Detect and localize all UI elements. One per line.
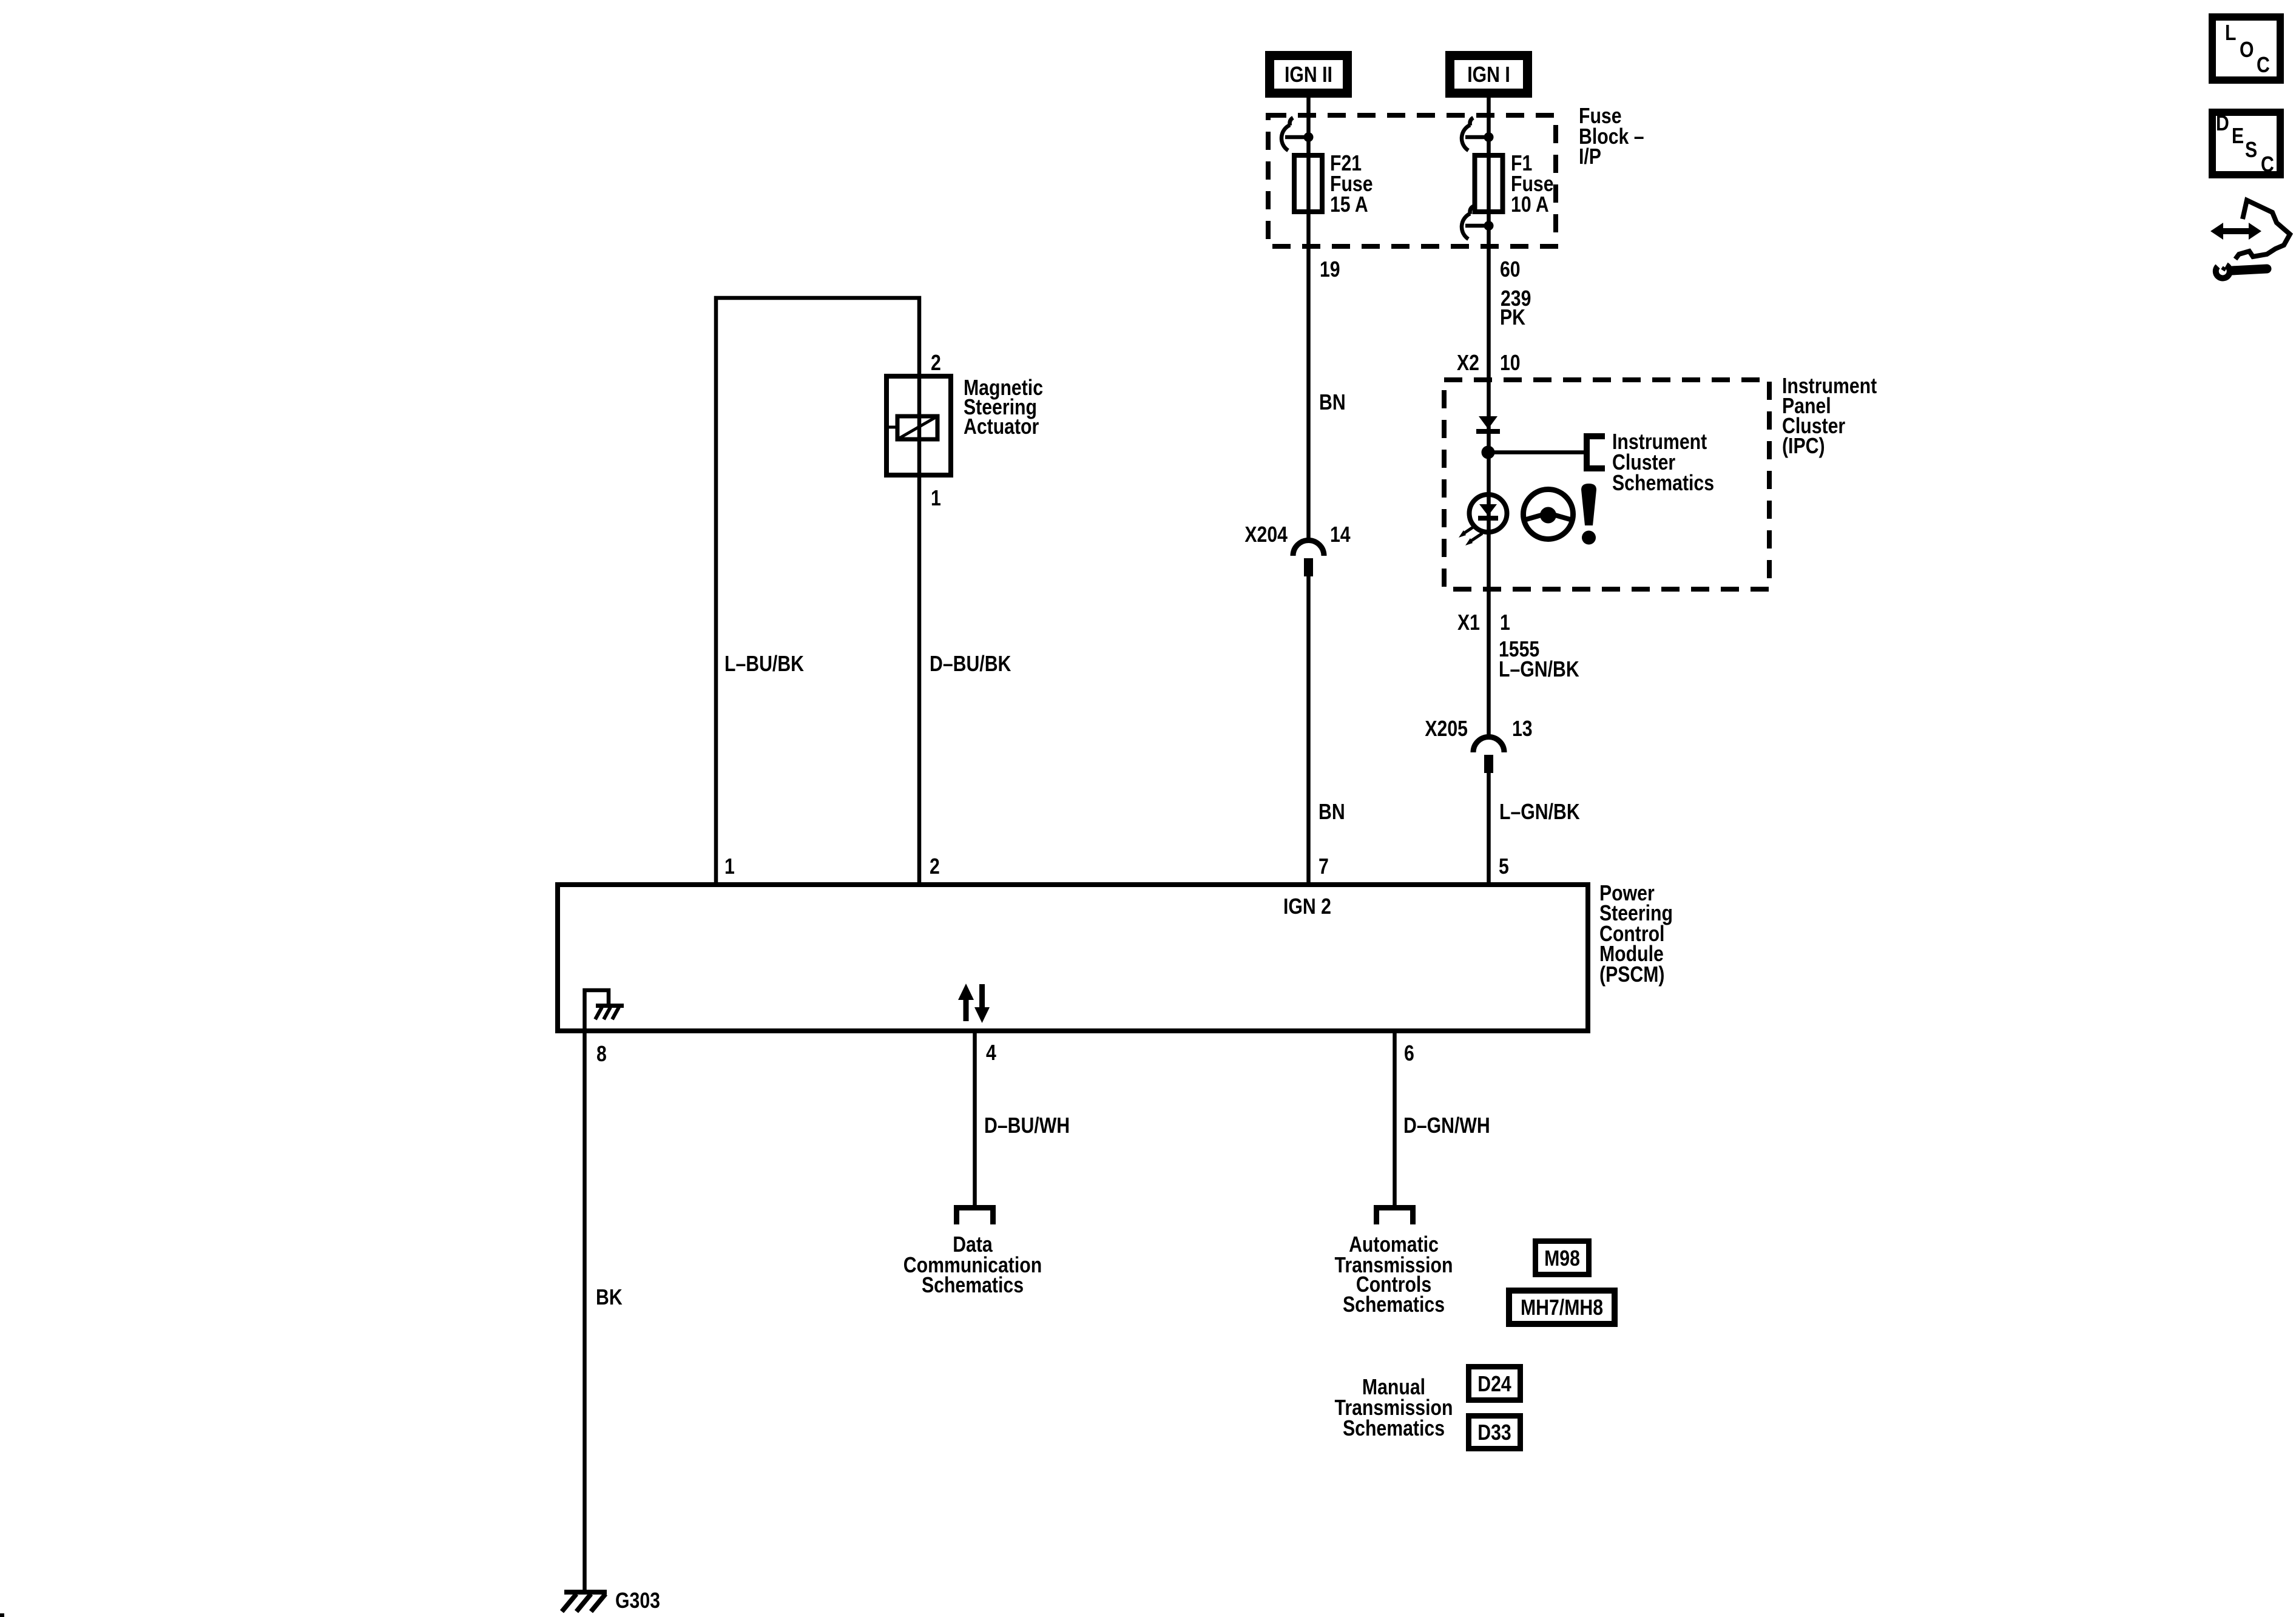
svg-text:2: 2 xyxy=(930,855,940,879)
svg-text:60: 60 xyxy=(1500,258,1521,282)
svg-text:Schematics: Schematics xyxy=(1343,1417,1445,1441)
svg-text:E: E xyxy=(2232,124,2244,149)
svg-text:MH7/MH8: MH7/MH8 xyxy=(1521,1296,1603,1320)
svg-text:IGN 2: IGN 2 xyxy=(1283,895,1331,919)
fuse block I/P dashed outline xyxy=(1268,115,1556,246)
DESC index box xyxy=(2212,112,2280,175)
svg-text:5: 5 xyxy=(1499,855,1509,879)
wire IGN II branch upper (BN feed) xyxy=(1306,98,1311,540)
actuator coil element xyxy=(886,416,937,439)
svg-text:Schematics: Schematics xyxy=(1343,1293,1445,1317)
svg-text:C: C xyxy=(2257,53,2270,78)
fuse block terminal hook below F1 xyxy=(1462,206,1494,239)
svg-text:L–GN/BK: L–GN/BK xyxy=(1499,658,1579,682)
svg-text:G303: G303 xyxy=(615,1589,660,1613)
svg-text:6: 6 xyxy=(1404,1042,1414,1066)
svg-text:BK: BK xyxy=(596,1286,623,1310)
ground G303 xyxy=(562,1592,607,1612)
off-page fork to automatic transmission controls schematics xyxy=(1377,1208,1413,1225)
inline connector X204 pin 14 xyxy=(1293,541,1324,577)
svg-text:(PSCM): (PSCM) xyxy=(1599,963,1664,987)
svg-text:X2: X2 xyxy=(1457,351,1479,376)
svg-text:1: 1 xyxy=(1500,611,1510,635)
reference box D33 xyxy=(1469,1416,1521,1449)
svg-text:D: D xyxy=(2216,112,2229,136)
power feed tag IGN I xyxy=(1450,56,1528,93)
wire IGN I branch lower to PSCM pin 5 xyxy=(1487,773,1491,885)
svg-text:8: 8 xyxy=(596,1042,607,1067)
fuse F1 xyxy=(1475,155,1503,212)
svg-text:Actuator: Actuator xyxy=(964,415,1039,439)
LOC index box xyxy=(2212,17,2280,80)
wire PSCM pin 4 serial data xyxy=(973,1031,977,1206)
svg-text:X205: X205 xyxy=(1425,717,1468,741)
svg-text:D–BU/BK: D–BU/BK xyxy=(930,652,1011,677)
page artifact dot bottom-left xyxy=(0,1613,4,1617)
fuse block terminal hook above F1 xyxy=(1462,118,1494,150)
fuse F21 xyxy=(1294,155,1322,212)
svg-text:7: 7 xyxy=(1319,855,1329,879)
svg-text:I/P: I/P xyxy=(1579,145,1601,169)
inline connector X205 pin 13 xyxy=(1473,737,1504,774)
bidirectional data arrows in PSCM xyxy=(958,984,990,1023)
svg-text:X1: X1 xyxy=(1457,611,1480,635)
svg-text:D–GN/WH: D–GN/WH xyxy=(1403,1114,1490,1138)
steering wheel warning icon xyxy=(1524,490,1573,539)
diagnostic arrow-wrench icon xyxy=(2210,200,2290,278)
wire IGN I branch upper (PK feed) xyxy=(1487,98,1491,737)
reference box D24 xyxy=(1469,1367,1521,1400)
junction node in IPC xyxy=(1482,446,1495,459)
internal ground symbol in PSCM xyxy=(585,990,624,1028)
wire PSCM pin 8 to G303 xyxy=(582,1031,587,1590)
reference box MH7/MH8 xyxy=(1509,1291,1615,1324)
svg-text:O: O xyxy=(2240,38,2254,62)
power feed tag IGN II xyxy=(1270,56,1348,93)
svg-text:S: S xyxy=(2245,138,2257,163)
diode CR1 in IPC xyxy=(1476,416,1500,431)
off-page fork to data communication schematics xyxy=(957,1208,993,1225)
svg-text:M98: M98 xyxy=(1544,1247,1580,1271)
instrument panel cluster dashed outline xyxy=(1444,380,1769,589)
wire loop PSCM pin 1 to actuator pin 2 xyxy=(716,298,919,885)
svg-text:PK: PK xyxy=(1500,306,1525,330)
svg-text:15 A: 15 A xyxy=(1330,193,1368,217)
power steering control module PSCM box xyxy=(558,885,1588,1031)
svg-text:(IPC): (IPC) xyxy=(1782,434,1825,459)
svg-text:L: L xyxy=(2225,21,2236,46)
svg-text:1: 1 xyxy=(931,487,941,511)
reference box M98 xyxy=(1536,1241,1589,1275)
svg-text:L–GN/BK: L–GN/BK xyxy=(1499,800,1580,825)
wire IGN II branch lower to PSCM pin 7 xyxy=(1306,576,1311,885)
telltale LED indicator xyxy=(1459,495,1507,545)
fuse block terminal hook above F21 xyxy=(1281,118,1314,150)
svg-text:D24: D24 xyxy=(1477,1372,1511,1397)
svg-text:IGN II: IGN II xyxy=(1285,63,1332,87)
svg-text:D33: D33 xyxy=(1477,1421,1511,1445)
svg-text:13: 13 xyxy=(1512,717,1533,741)
svg-text:10 A: 10 A xyxy=(1511,193,1549,217)
svg-text:19: 19 xyxy=(1320,258,1340,282)
svg-text:Schematics: Schematics xyxy=(1612,471,1714,496)
svg-text:Schematics: Schematics xyxy=(922,1274,1024,1298)
exclamation warning icon xyxy=(1581,484,1596,545)
svg-text:L–BU/BK: L–BU/BK xyxy=(724,652,804,677)
wire PSCM pin 6 transmission signal xyxy=(1393,1031,1397,1206)
svg-text:BN: BN xyxy=(1319,391,1346,415)
svg-text:C: C xyxy=(2261,153,2274,177)
svg-text:X204: X204 xyxy=(1244,523,1288,547)
svg-text:14: 14 xyxy=(1330,523,1351,547)
svg-text:10: 10 xyxy=(1500,351,1521,376)
wire branch to instrument cluster schematics xyxy=(1488,450,1585,454)
svg-text:2: 2 xyxy=(931,351,941,376)
svg-text:BN: BN xyxy=(1319,800,1345,825)
off-page bracket to instrument cluster schematics xyxy=(1587,436,1605,468)
svg-text:1: 1 xyxy=(724,855,735,879)
magnetic steering actuator box xyxy=(886,376,951,475)
svg-text:IGN I: IGN I xyxy=(1467,63,1510,87)
svg-text:4: 4 xyxy=(986,1041,996,1065)
svg-text:D–BU/WH: D–BU/WH xyxy=(984,1114,1070,1138)
